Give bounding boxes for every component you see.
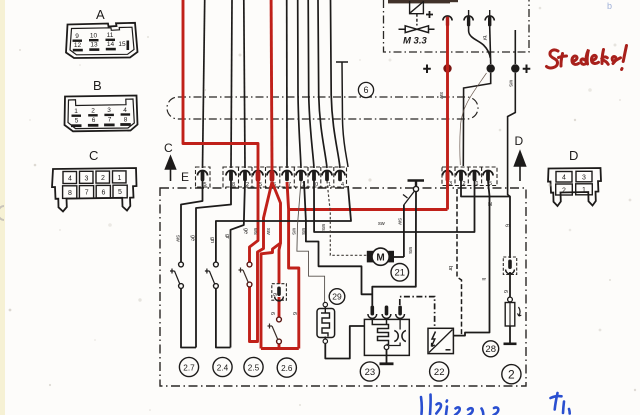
dashed wire socket E9 to motor left [327, 181, 367, 255]
svg-text:13: 13 [90, 42, 98, 49]
thin pencil curve [460, 73, 487, 165]
cropped component at top edge [388, 0, 450, 3]
23 ground [386, 350, 388, 364]
switch 27 U bottom [181, 286, 196, 348]
red wire: switch 25 bottom + U + return [250, 182, 273, 342]
top switch [408, 181, 425, 187]
svg-text:bl: bl [488, 202, 492, 208]
circle 6 [358, 82, 373, 97]
top sockets row [443, 10, 494, 27]
svg-text:6: 6 [504, 224, 510, 227]
D4 wire down to 22 [453, 181, 489, 336]
H1: to switch24 left leg [216, 186, 351, 263]
svg-text:ws: ws [407, 246, 413, 254]
svg-text:gn: gn [209, 237, 215, 243]
svg-text:6: 6 [92, 117, 96, 124]
svg-text:ws: ws [320, 223, 326, 231]
svg-text:1: 1 [74, 108, 78, 115]
numbered circles [179, 264, 521, 384]
connector C (left pin layout) [52, 148, 137, 212]
svg-text:3: 3 [85, 175, 89, 182]
scan edge tint [0, 0, 5, 415]
svg-text:ge: ge [243, 228, 249, 234]
svg-text:8: 8 [232, 182, 235, 188]
26 switch [277, 317, 282, 344]
red wire W1 from top [183, 0, 258, 170]
svg-text:C: C [89, 148, 98, 163]
top-right dash-dot enclosure [384, 0, 530, 52]
svg-text:br: br [447, 266, 453, 271]
svg-text:2.5: 2.5 [248, 363, 260, 372]
red wire W2 from top [270, 0, 274, 170]
svg-text:ws: ws [291, 227, 297, 235]
svg-text:M 3.3: M 3.3 [403, 36, 427, 47]
wires from top sockets to dots [463, 27, 515, 197]
svg-text:sw: sw [438, 92, 444, 99]
26 inline connector dashed box [272, 284, 287, 301]
sensor inline connector [503, 257, 516, 275]
small wire labels top right [438, 35, 514, 98]
svg-text:gr: gr [224, 234, 230, 239]
svg-text:1: 1 [328, 182, 331, 188]
fan: socket3 to switch24 right leg [231, 181, 246, 348]
dashed br wire to 22 [457, 189, 462, 335]
svg-text:6: 6 [269, 312, 275, 315]
svg-text:5: 5 [118, 189, 122, 196]
svg-text:ws: ws [508, 79, 514, 87]
H3: socket E8 down then right to D3 [314, 181, 475, 232]
main dash-dot box [160, 188, 526, 386]
dashed actuator link [416, 14, 418, 26]
thin ws wire to 29 [297, 181, 325, 302]
svg-text:2: 2 [462, 181, 465, 187]
red horizontal to D1 [289, 208, 448, 211]
svg-text:ws: ws [300, 227, 306, 235]
sensor body [508, 297, 513, 302]
junction dots row [443, 64, 519, 72]
top switch vertical to motor junction [403, 205, 405, 258]
svg-text:12: 12 [74, 42, 82, 49]
component 29 [317, 309, 335, 338]
svg-text:sw: sw [265, 228, 271, 235]
23 pins [368, 306, 377, 319]
motor 21 [367, 251, 374, 263]
red wire: 26 middle leg switch to bottom [278, 344, 281, 349]
red wire: 26 bottom bar [261, 347, 299, 350]
connector A [66, 7, 138, 58]
svg-text:1: 1 [118, 175, 122, 182]
connector B [65, 78, 138, 131]
switch 24 U bottom [216, 286, 231, 348]
component 22 box [428, 328, 453, 353]
svg-text:C: C [164, 141, 173, 155]
D2 below to sensor chain [461, 181, 510, 258]
svg-text:M: M [376, 252, 384, 263]
svg-text:7: 7 [108, 117, 112, 124]
switch 27 contacts [179, 262, 184, 288]
svg-text:4: 4 [123, 107, 127, 114]
red wire: socket6 to H-red and right leg [287, 182, 299, 349]
svg-text:2: 2 [246, 182, 249, 188]
svg-text:28: 28 [485, 344, 496, 355]
svg-text:1: 1 [582, 187, 586, 194]
svg-text:ws: ws [252, 227, 258, 235]
svg-text:3: 3 [107, 107, 111, 114]
connector D (right pin layout) [548, 148, 601, 206]
T antenna line [336, 62, 348, 167]
svg-text:2.7: 2.7 [183, 363, 195, 372]
svg-text:8: 8 [68, 190, 72, 197]
svg-text:0: 0 [315, 182, 318, 188]
svg-text:6: 6 [291, 312, 297, 315]
svg-text:22: 22 [434, 367, 445, 378]
svg-text:sw: sw [378, 221, 385, 227]
svg-text:9: 9 [75, 33, 79, 40]
svg-text:2: 2 [562, 187, 566, 194]
fan: socket1 to switch27 left [181, 181, 203, 263]
svg-text:23: 23 [365, 367, 376, 378]
W-23feed from socket E7 [304, 181, 372, 294]
switch contacts of red circuits (dark outline circles) [247, 262, 252, 287]
E row sockets [198, 171, 208, 182]
svg-text:2: 2 [508, 368, 515, 382]
svg-text:21: 21 [395, 268, 406, 279]
red wire: socket5 to 26 left leg [261, 182, 281, 349]
blue handwriting bottom [421, 393, 570, 415]
wire color labels left fan [175, 202, 510, 293]
svg-text:ge: ge [190, 235, 196, 241]
D row box + sockets [442, 167, 497, 186]
relay U with armature [410, 1, 424, 26]
23 internals: meander + capacitor [372, 318, 388, 345]
svg-text:sw: sw [175, 235, 181, 242]
svg-text:5: 5 [75, 118, 79, 125]
valve M 3.3 [399, 26, 435, 33]
fan: socket2 to switch27 right leg [196, 181, 231, 348]
svg-text:b: b [607, 1, 612, 11]
switch 24 contacts [214, 262, 219, 288]
red wire: socket4 to switch 25 [250, 181, 259, 263]
plus mark near relay [426, 11, 433, 18]
svg-text:6: 6 [271, 293, 277, 296]
svg-text:4: 4 [562, 175, 566, 182]
svg-text:3: 3 [449, 181, 452, 187]
labels near 26 [269, 293, 297, 315]
plus marks beside dots [423, 65, 530, 74]
Stecker! handwriting [547, 46, 627, 70]
svg-text:4: 4 [68, 176, 72, 183]
svg-text:D: D [569, 148, 578, 163]
svg-text:B: B [93, 78, 102, 93]
29 bottom return [325, 326, 364, 359]
red pins overrides [256, 171, 260, 182]
svg-text:A: A [96, 7, 105, 22]
capsule dash-dot [167, 97, 478, 119]
top switch node to pin1 of 23 [372, 191, 416, 306]
svg-text:2.4: 2.4 [217, 363, 229, 372]
svg-text:6: 6 [502, 290, 508, 293]
svg-text:8: 8 [124, 116, 128, 123]
sensor chain lower [509, 272, 511, 297]
long verticals from top to E row [203, 0, 341, 168]
faint scan marks [147, 36, 149, 38]
svg-text:E: E [181, 170, 189, 184]
component 23 box [364, 319, 409, 355]
red vertical D1 up to top socket [446, 26, 449, 210]
svg-text:D: D [515, 134, 524, 148]
svg-text:2: 2 [91, 108, 95, 115]
svg-text:2: 2 [101, 175, 105, 182]
svg-text:29: 29 [332, 292, 342, 302]
svg-text:14: 14 [107, 41, 115, 48]
svg-text:10: 10 [90, 33, 98, 40]
red wire: 26 middle leg upper [279, 243, 281, 284]
svg-text:li: li [480, 278, 486, 280]
motor right terminal wire [394, 256, 404, 258]
svg-text:6: 6 [363, 85, 368, 95]
svg-text:sw: sw [397, 218, 403, 225]
svg-text:5: 5 [203, 182, 206, 188]
dashed wire pin3-23 to 22 [400, 297, 435, 328]
red wire: 26 middle leg connector to switch [278, 297, 281, 317]
svg-text:11: 11 [107, 32, 114, 39]
svg-text:1: 1 [475, 181, 478, 187]
svg-text:6: 6 [101, 189, 105, 196]
svg-text:2.6: 2.6 [281, 364, 293, 373]
E row small box [196, 167, 347, 187]
svg-text:7: 7 [85, 190, 89, 197]
svg-text:3: 3 [582, 174, 586, 181]
svg-text:15: 15 [118, 41, 126, 48]
